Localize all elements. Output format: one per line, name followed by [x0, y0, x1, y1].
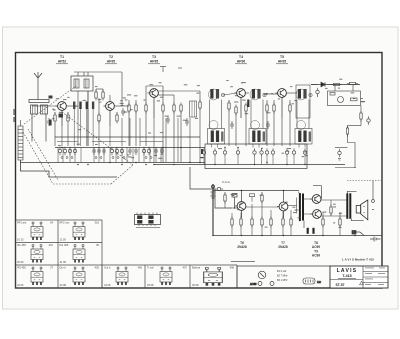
- svg-text:Zclr: Zclr: [317, 281, 321, 284]
- transformer card 3: [17, 243, 54, 264]
- transformer card grid: [16, 220, 238, 288]
- stage T2 wires: [96, 72, 136, 146]
- svg-text:AF96: AF96: [237, 60, 245, 64]
- svg-text:L A V I S Modelo T 415: L A V I S Modelo T 415: [342, 258, 374, 262]
- main bus wires: [20, 137, 345, 165]
- oscillator coil box: [71, 76, 93, 91]
- emitter capacitor T1: [59, 114, 64, 118]
- label T2 AF95: [105, 55, 117, 64]
- svg-text:Out tr: Out tr: [104, 266, 111, 270]
- transformer card 8: [147, 266, 188, 288]
- junction dots: [61, 147, 355, 236]
- connector block: [135, 213, 161, 228]
- driver transformer: [299, 192, 304, 229]
- transformer card 9: [192, 266, 235, 288]
- vertical drop wires: [62, 91, 190, 162]
- svg-text:AF52: AF52: [58, 60, 66, 64]
- tuning link dashed: [24, 86, 76, 124]
- svg-text:ST-57: ST-57: [335, 283, 344, 287]
- wire corner to bus: [335, 134, 356, 168]
- svg-text:T5: T5: [280, 55, 284, 59]
- label T3 AF95: [148, 55, 160, 64]
- transformer card 6: [60, 266, 100, 288]
- stage T3 components: [145, 100, 201, 127]
- svg-text:AF95: AF95: [107, 60, 115, 64]
- svg-text:Bobina: Bobina: [192, 266, 201, 270]
- frame margin ticks: [13, 109, 15, 122]
- strip transistor drawing: [250, 271, 274, 286]
- dial cord dashed path: [23, 112, 133, 184]
- component row (switch contacts): [58, 147, 164, 155]
- svg-text:AC99: AC99: [250, 282, 257, 286]
- decoupling cap C22: [338, 149, 341, 160]
- filter electrolytics: [307, 228, 315, 234]
- IF transformer can 3 (detector): [295, 85, 312, 148]
- label T4 AF96: [235, 55, 247, 64]
- svg-text:T-415: T-415: [342, 274, 351, 278]
- svg-text:10 15: 10 15: [17, 238, 24, 242]
- speaker: [356, 200, 368, 220]
- svg-text:B2 7 MHz: B2 7 MHz: [277, 275, 288, 278]
- on-off switch: [352, 231, 364, 236]
- svg-text:40 06: 40 06: [17, 260, 24, 264]
- strip connector: [303, 278, 321, 284]
- svg-text:T3: T3: [152, 55, 156, 59]
- stage T4 wires: [224, 93, 275, 146]
- svg-text:43 08: 43 08: [60, 283, 67, 287]
- transistor T3: [148, 89, 159, 118]
- wire tuner to T1: [32, 91, 88, 146]
- transistor T4: [235, 89, 246, 118]
- svg-text:RF1 ant: RF1 ant: [17, 221, 27, 225]
- coil tap marks: [49, 96, 53, 126]
- svg-text:456: 456: [138, 266, 143, 270]
- detector diode D1: [311, 82, 360, 87]
- svg-text:458: 458: [230, 266, 235, 270]
- transformer card 1: [17, 221, 54, 242]
- oscillator divider resistors: [73, 102, 94, 147]
- svg-text:41 05: 41 05: [60, 260, 67, 264]
- output transformer: [346, 193, 351, 219]
- transistor T5: [276, 89, 287, 118]
- bottom strip panel: [237, 266, 330, 288]
- stage T3 wires: [146, 86, 200, 162]
- svg-text:IF2 455: IF2 455: [60, 243, 69, 247]
- svg-text:45 08: 45 08: [147, 283, 154, 287]
- schematic border frame: [16, 53, 383, 289]
- svg-text:2N428: 2N428: [278, 245, 288, 249]
- transformer card 4: [60, 243, 100, 264]
- oscillator top wire: [74, 67, 182, 77]
- speaker wires: [347, 191, 363, 220]
- detector resistors: [316, 82, 358, 96]
- svg-text:Drv tr: Drv tr: [60, 266, 66, 270]
- IF transformer can 1: [208, 89, 225, 148]
- svg-text:AC99: AC99: [312, 254, 320, 258]
- stage T5 resistor: [289, 103, 291, 114]
- svg-text:2N428: 2N428: [237, 245, 247, 249]
- svg-text:46 08: 46 08: [192, 283, 199, 287]
- transistor T8: [310, 195, 321, 204]
- svg-text:AF95: AF95: [278, 60, 286, 64]
- stage T2 components: [95, 90, 137, 124]
- strip labels: [277, 270, 288, 282]
- svg-text:AC99: AC99: [312, 245, 320, 249]
- transformer card 5: [17, 266, 54, 288]
- resistor R14 dark: [247, 100, 249, 108]
- IF transformer can 2: [249, 89, 266, 148]
- wire left L-path: [21, 160, 118, 177]
- svg-text:B3 1 MHz: B3 1 MHz: [277, 279, 288, 282]
- wire to volume control: [348, 119, 362, 128]
- label T6 2N428: [237, 241, 247, 249]
- IF bottom drop wires: [204, 157, 305, 165]
- svg-text:11 05: 11 05: [60, 238, 67, 242]
- earphone jack: [370, 237, 381, 242]
- audio wires: [225, 192, 346, 236]
- volume potentiometer: [232, 194, 237, 209]
- junction dot volume: [234, 207, 235, 208]
- svg-text:AF95: AF95: [150, 60, 158, 64]
- svg-text:T2: T2: [109, 55, 113, 59]
- svg-text:IF3 455: IF3 455: [17, 266, 26, 270]
- transistor T6: [235, 202, 246, 218]
- audio top wire: [213, 186, 321, 203]
- caption above strip: [231, 261, 255, 262]
- svg-text:316: 316: [49, 243, 54, 247]
- label T5 AF95: [276, 55, 288, 64]
- dial cord dashed right: [347, 180, 382, 182]
- IF bypass electrolytics row: [202, 148, 306, 156]
- stage T1 bias resistors: [47, 113, 69, 127]
- AGC wire to IF: [311, 85, 363, 114]
- label T8 AC99: [312, 241, 320, 258]
- svg-text:B1 9 volt: B1 9 volt: [277, 270, 287, 273]
- svg-text:455: 455: [95, 266, 100, 270]
- svg-text:IF1 455: IF1 455: [17, 243, 26, 247]
- edge components left of AGC box: [201, 149, 204, 158]
- AGC filter network box: [328, 85, 361, 106]
- svg-text:RF2 osc: RF2 osc: [60, 221, 70, 225]
- AGC board box: [205, 144, 307, 169]
- resistor R20: [346, 126, 348, 137]
- tuning gang: [18, 120, 23, 160]
- antenna: [34, 72, 42, 95]
- stage T5 wires: [263, 93, 297, 146]
- audio resistors: [224, 193, 341, 228]
- wire comb drops: [58, 148, 161, 163]
- label T7 2N428: [278, 241, 288, 249]
- value label smudges: [52, 79, 365, 228]
- band switch second row: [57, 142, 163, 159]
- svg-text:T4: T4: [239, 55, 243, 59]
- label T1 AF52: [56, 55, 68, 64]
- detector drop wire: [190, 167, 237, 208]
- svg-text:44 08: 44 08: [104, 283, 111, 287]
- ferrite rod antenna L1: [29, 95, 49, 142]
- coupling cap C30: [215, 187, 223, 190]
- pilot lamp: [372, 181, 375, 210]
- svg-text:C.A.G.: C.A.G.: [222, 180, 231, 184]
- svg-text:T1: T1: [60, 55, 64, 59]
- svg-text:Tr sal: Tr sal: [147, 266, 154, 270]
- transistor T7: [277, 202, 288, 218]
- transformer card 7: [104, 266, 143, 288]
- IF coil L2: [190, 101, 197, 117]
- volume feed resistor: [360, 111, 370, 125]
- stage T4 components: [228, 101, 275, 130]
- battery B1: [211, 184, 216, 236]
- audio bottom bus: [213, 235, 382, 237]
- transistor T2: [104, 102, 115, 126]
- svg-text:42 06: 42 06: [17, 283, 24, 287]
- svg-text:318: 318: [95, 221, 100, 225]
- resistor R24: [250, 194, 255, 202]
- svg-text:457: 457: [183, 266, 188, 270]
- transformer card 2: [60, 221, 100, 242]
- title block: [330, 266, 388, 288]
- transistor T1: [56, 102, 67, 126]
- transistor T9: [311, 210, 322, 219]
